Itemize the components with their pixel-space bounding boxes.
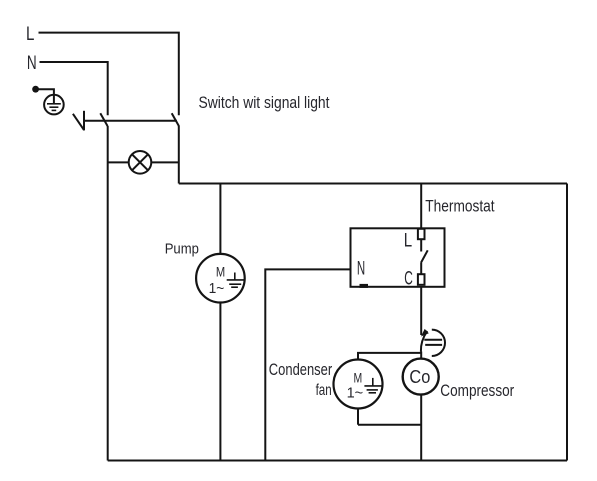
svg-text:M: M (354, 369, 363, 385)
label Pump (165, 242, 199, 258)
wire junction protector output (420, 352, 422, 360)
wire N feed (horizontal + drop to switch) (40, 62, 108, 115)
pin C terminal of thermostat (418, 274, 425, 285)
ground symbol inside pump motor (227, 273, 245, 288)
ground symbol inside fan motor (364, 378, 382, 393)
label C (thermostat terminal) (404, 268, 413, 290)
label Switch wit signal light (199, 93, 330, 112)
wire pump feed from top bus (219, 184, 221, 255)
svg-text:Compressor: Compressor (440, 381, 514, 400)
switch S1 manual actuator arrow (73, 111, 84, 131)
ground (protective earth in circle) (44, 95, 64, 115)
svg-text:M: M (216, 264, 225, 280)
wire thermostat C output down to protector (420, 287, 422, 335)
wire condenser fan branch top (358, 353, 421, 360)
wire bottom bus (N return) (108, 460, 567, 462)
svg-text:C: C (404, 268, 413, 290)
wire thermostat feed from top bus (420, 184, 422, 230)
pin N terminal tick on box bottom (360, 284, 369, 288)
label Condenser (269, 361, 333, 379)
thermostat box (351, 228, 445, 286)
wire ground branch (36, 89, 54, 95)
svg-text:Switch wit signal light: Switch wit signal light (199, 93, 330, 112)
pin L terminal of thermostat (418, 229, 425, 239)
compressor motor Co (403, 359, 439, 395)
wire fan/compressor bottom loop (358, 424, 421, 426)
wire L switched: down to top bus (178, 126, 180, 184)
svg-text:Pump: Pump (165, 242, 199, 258)
wire compressor return to bottom bus (420, 395, 422, 461)
lamp (signal light) (129, 151, 152, 174)
switch S1 pole 1 blade (N) (100, 113, 107, 126)
svg-text:Thermostat: Thermostat (425, 198, 495, 216)
svg-text:1~: 1~ (209, 281, 225, 297)
wire top bus (switched L) (179, 183, 567, 185)
wire thermostat N branch (left + down to bottom bus) (265, 269, 350, 460)
wire thermostat internal upper (420, 239, 422, 251)
wire N switched: left rail down to bottom bus (107, 126, 109, 461)
label N (thermostat terminal) (357, 259, 365, 280)
wire lamp branch left (108, 161, 129, 163)
node N (27, 53, 37, 74)
overload protector (thermal cutout) (421, 329, 445, 356)
switch S1 pole 2 blade (L) (172, 113, 179, 126)
label L (thermostat terminal) (404, 231, 412, 252)
wire fan bottom stub (357, 409, 359, 425)
label Thermostat (425, 198, 495, 216)
node L (26, 24, 34, 45)
svg-text:L: L (404, 231, 412, 252)
thermostat switch blade (421, 250, 428, 263)
svg-text:N: N (357, 259, 365, 280)
switch S1 mechanical linkage (84, 120, 177, 122)
wire thermostat internal lower (420, 263, 422, 274)
wire right rail (566, 184, 568, 461)
wire L feed (top horizontal + drop to switch) (39, 33, 179, 116)
wire lamp branch right (151, 161, 178, 163)
svg-text:Co: Co (409, 366, 430, 387)
wire pump return to bottom bus (219, 303, 221, 461)
svg-text:1~: 1~ (347, 386, 364, 402)
label fan (316, 382, 332, 399)
svg-text:N: N (27, 53, 37, 74)
label Compressor (440, 381, 514, 400)
svg-text:L: L (26, 24, 34, 45)
svg-text:fan: fan (316, 382, 332, 399)
svg-text:Condenser: Condenser (269, 361, 333, 379)
ground terminal dot (32, 86, 39, 93)
motor M2 condenser fan (M 1~) (334, 360, 383, 409)
motor M1 pump (M 1~) (196, 254, 245, 303)
